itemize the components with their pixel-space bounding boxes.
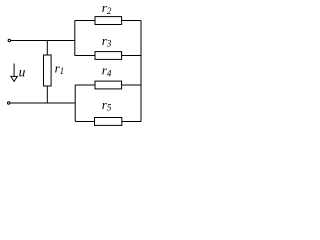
svg-text:u: u <box>19 65 26 80</box>
svg-text:r5: r5 <box>102 97 112 113</box>
wire r2 right <box>122 20 141 22</box>
node A: group1 left bus <box>74 21 76 56</box>
wire r1 top stub <box>46 41 48 56</box>
wire bottom rail <box>10 102 75 104</box>
node B: right bus <box>140 21 142 122</box>
terminal bottom-left <box>8 102 10 104</box>
wire top rail <box>11 40 75 42</box>
wire r1 bottom stub <box>46 86 48 103</box>
wire r5 right <box>122 121 141 123</box>
wire r4 left <box>75 84 95 86</box>
wire r3 right <box>122 55 141 57</box>
svg-text:r2: r2 <box>102 0 112 16</box>
resistor r1 <box>44 55 52 86</box>
wire r3 left <box>75 55 95 57</box>
svg-text:r1: r1 <box>55 60 65 76</box>
wire r5 left <box>75 121 94 123</box>
wire r2 left <box>75 20 95 22</box>
wire r4 right <box>122 84 141 86</box>
terminal top-left <box>8 39 10 41</box>
voltage arrow u <box>11 64 18 82</box>
node C: group2 left bus <box>74 85 76 122</box>
resistor r2 <box>95 17 122 25</box>
resistor r3 <box>95 52 122 60</box>
svg-text:r4: r4 <box>102 63 112 79</box>
svg-text:r3: r3 <box>102 33 112 49</box>
resistor r5 <box>95 118 122 126</box>
resistor r4 <box>95 81 122 89</box>
